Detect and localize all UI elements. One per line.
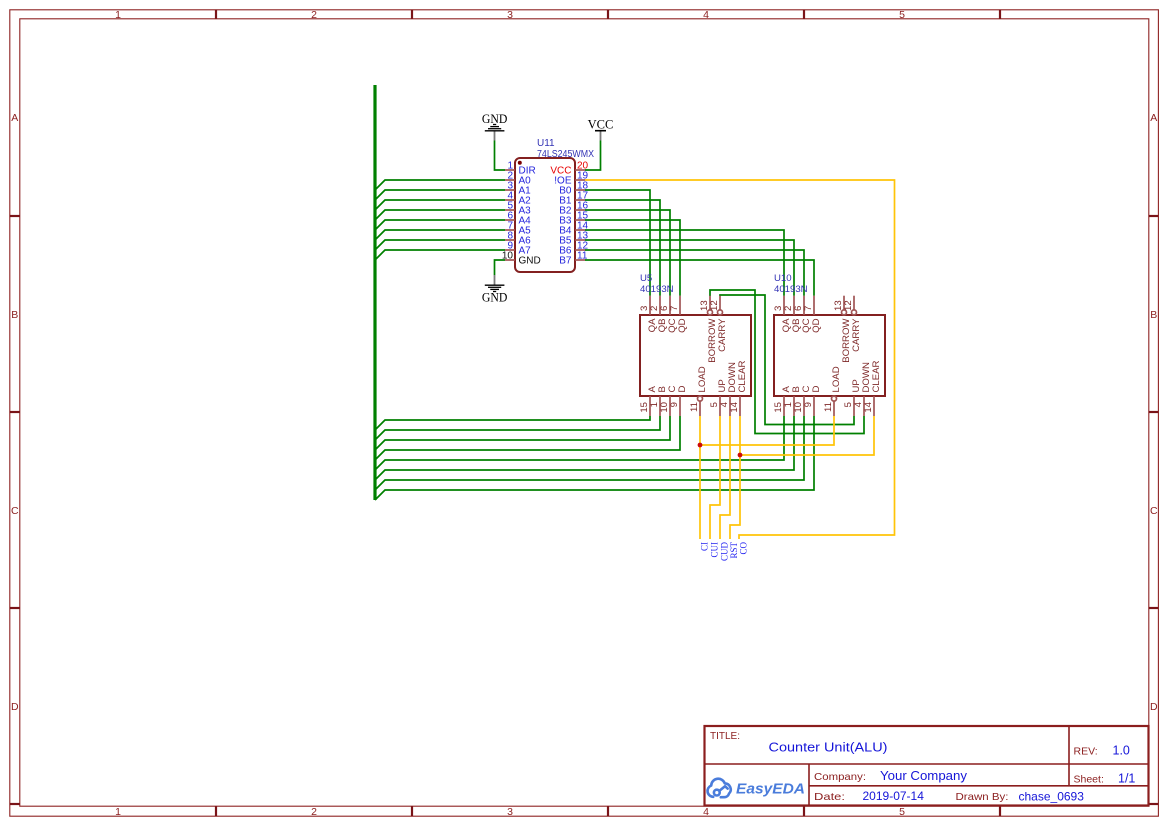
wire B1 to counter QB (585, 200, 660, 296)
wire U11 GND pin 10 to ground (495, 260, 506, 275)
wire U10 D to bus (375, 416, 814, 500)
svg-text:CUD: CUD (720, 542, 730, 562)
svg-text:5: 5 (899, 806, 905, 818)
svg-text:B: B (1150, 309, 1157, 321)
wire B5 to counter QB (585, 240, 794, 296)
svg-text:CLEAR: CLEAR (737, 360, 748, 392)
op buffer U11 74LS245WMX (502, 138, 594, 272)
svg-text:C: C (11, 505, 19, 517)
svg-text:Date:: Date: (814, 791, 845, 803)
svg-text:74LS245WMX: 74LS245WMX (537, 149, 594, 160)
svg-text:14: 14 (729, 401, 740, 412)
wire B4 to counter QA (585, 230, 784, 296)
wire U5 BORROW to U10 DOWN (710, 290, 864, 434)
junction RST net (738, 453, 743, 458)
counter U5 40193N (639, 273, 751, 416)
svg-text:CUI: CUI (710, 542, 720, 558)
wire !OE to CO net (585, 180, 895, 539)
power VCC (588, 117, 614, 140)
svg-text:Company:: Company: (814, 771, 866, 783)
ground GND (top, at U11 DIR) (482, 112, 508, 141)
svg-text:GND: GND (519, 256, 541, 267)
svg-text:11: 11 (577, 251, 588, 262)
svg-text:12: 12 (843, 300, 854, 311)
wire U5 UP to CUI net (710, 416, 720, 539)
svg-text:EasyEDA: EasyEDA (736, 782, 805, 798)
svg-text:LOAD: LOAD (831, 366, 842, 392)
title block (705, 726, 1149, 806)
svg-text:40193N: 40193N (774, 284, 808, 295)
U10 pin names (781, 318, 882, 393)
svg-text:Your Company: Your Company (880, 769, 968, 783)
svg-text:2: 2 (311, 806, 317, 818)
svg-text:VCC: VCC (588, 117, 614, 131)
wire CI to U10 LOAD (700, 416, 834, 445)
svg-text:chase_0693: chase_0693 (1019, 790, 1085, 804)
wire U5 C to bus (375, 416, 670, 450)
svg-text:2: 2 (311, 9, 317, 21)
wire U10 A to bus (375, 416, 784, 470)
svg-text:4: 4 (703, 806, 709, 818)
wire U5 CARRY to U10 UP (720, 295, 854, 425)
svg-text:RST: RST (729, 542, 739, 559)
svg-text:LOAD: LOAD (697, 366, 708, 392)
wire U5 CLEAR to RST net (730, 416, 740, 539)
U5 pin names (647, 318, 748, 393)
wire U5 A to bus (375, 416, 650, 430)
svg-text:3: 3 (507, 9, 513, 21)
svg-text:CI: CI (700, 542, 710, 551)
svg-text:10: 10 (502, 251, 514, 262)
svg-text:Counter Unit(ALU): Counter Unit(ALU) (769, 740, 888, 754)
svg-text:7: 7 (669, 306, 680, 311)
bus (left vertical data bus) (373, 85, 376, 500)
svg-text:D: D (1150, 701, 1158, 713)
svg-text:B: B (11, 309, 18, 321)
svg-text:7: 7 (803, 306, 814, 311)
svg-text:U11: U11 (537, 138, 555, 149)
wire B0 to counter QA (585, 190, 650, 296)
U10 pin stubs (784, 296, 874, 416)
svg-text:A: A (1150, 112, 1157, 124)
U10 reference designator (774, 273, 808, 295)
U5 reference designator (640, 273, 674, 295)
wire A7 to bus (375, 250, 505, 260)
counter U10 40193N (773, 273, 885, 416)
svg-text:9: 9 (803, 402, 814, 407)
svg-text:QD: QD (811, 318, 822, 332)
U5 pin numbers (639, 300, 740, 412)
svg-text:11: 11 (689, 402, 700, 412)
U11 pin stubs (505, 170, 585, 260)
svg-text:Drawn By:: Drawn By: (956, 791, 1009, 803)
svg-text:B7: B7 (559, 256, 572, 267)
wire U10 C to bus (375, 416, 804, 490)
junction CI net (698, 443, 703, 448)
svg-text:D: D (811, 386, 822, 393)
U11 pin-1 marker dot (518, 161, 522, 165)
wire VCC to U11 pin 20 (585, 141, 601, 171)
svg-text:CO: CO (739, 542, 749, 555)
svg-text:5: 5 (899, 9, 905, 21)
svg-text:3: 3 (507, 806, 513, 818)
U5 pin stubs (650, 296, 740, 416)
wire B7 to counter QD (585, 260, 814, 296)
wire B3 to counter QD (585, 220, 680, 296)
svg-text:Sheet:: Sheet: (1074, 774, 1104, 786)
svg-text:GND: GND (482, 291, 508, 305)
svg-text:U5: U5 (640, 273, 652, 284)
svg-text:TITLE:: TITLE: (710, 731, 740, 742)
U11 reference designator (537, 138, 594, 160)
svg-text:A: A (11, 112, 18, 124)
wire U10 B to bus (375, 416, 794, 480)
svg-text:CLEAR: CLEAR (871, 360, 882, 392)
wire GND to U11 DIR pin 1 (495, 141, 506, 171)
wire A4 to bus (375, 220, 505, 230)
svg-text:D: D (11, 701, 19, 713)
svg-text:12: 12 (709, 300, 720, 311)
wire A2 to bus (375, 200, 505, 210)
wire A1 to bus (375, 190, 505, 200)
svg-text:11: 11 (823, 402, 834, 412)
svg-text:1/1: 1/1 (1118, 772, 1135, 786)
EasyEDA logo (708, 779, 731, 797)
svg-text:C: C (1150, 505, 1158, 517)
wire B2 to counter QC (585, 210, 670, 296)
wire A5 to bus (375, 230, 505, 240)
wire B6 to counter QC (585, 250, 804, 296)
svg-text:D: D (677, 386, 688, 393)
ground GND (bottom, at U11 pin 10) (482, 275, 508, 305)
wire U5 DOWN to CUD net (720, 416, 730, 539)
svg-text:CARRY: CARRY (717, 318, 728, 352)
svg-text:4: 4 (703, 9, 709, 21)
wire U5 LOAD to CI net (699, 416, 701, 539)
U11 pin names (519, 166, 572, 267)
svg-text:1: 1 (115, 9, 121, 21)
svg-text:2019-07-14: 2019-07-14 (863, 789, 925, 803)
svg-text:QD: QD (677, 318, 688, 332)
svg-text:REV:: REV: (1074, 746, 1098, 758)
wire A6 to bus (375, 240, 505, 250)
svg-text:CARRY: CARRY (851, 318, 862, 352)
svg-text:1: 1 (115, 806, 121, 818)
wire A3 to bus (375, 210, 505, 220)
U11 pin numbers (502, 161, 589, 262)
wire RST to U10 CLEAR (740, 416, 874, 455)
svg-text:9: 9 (669, 402, 680, 407)
wire A0 to bus (375, 180, 505, 190)
U10 pin numbers (773, 300, 874, 412)
wire U5 D to bus (375, 416, 680, 460)
svg-text:U10: U10 (774, 273, 792, 284)
svg-text:40193N: 40193N (640, 284, 674, 295)
wire U5 B to bus (375, 416, 660, 440)
svg-text:1.0: 1.0 (1113, 744, 1130, 758)
svg-text:14: 14 (863, 401, 874, 412)
